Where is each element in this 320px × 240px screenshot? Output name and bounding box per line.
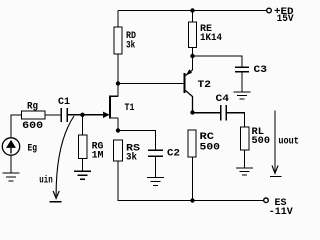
node emitter <box>190 54 194 58</box>
wire collector to C4 <box>193 112 221 114</box>
svg-text:1K14: 1K14 <box>200 33 222 44</box>
svg-text:15V: 15V <box>277 14 294 25</box>
svg-text:500: 500 <box>252 136 271 147</box>
wire emitter node to C3 <box>193 56 243 67</box>
resistor RD 3k <box>114 27 122 54</box>
capacitor C1 <box>58 97 70 122</box>
ground RL <box>236 168 253 175</box>
svg-text:uout: uout <box>278 136 299 147</box>
wire source to C2 <box>118 131 156 151</box>
ground C3 <box>234 92 251 99</box>
capacitor C2 <box>148 149 180 160</box>
resistor RE 1K14 <box>189 22 197 48</box>
wire RE bottom <box>192 48 194 57</box>
wire RD bottom <box>117 54 119 84</box>
resistor RC 500 <box>188 130 196 157</box>
source Eg <box>2 138 37 155</box>
svg-text:C2: C2 <box>167 149 180 160</box>
svg-text:C1: C1 <box>58 97 70 108</box>
node drain/base <box>116 81 120 85</box>
wire gate <box>68 114 105 116</box>
wire RG top <box>82 115 84 135</box>
terminal ES <box>264 198 269 203</box>
node collector <box>190 110 194 114</box>
ground RG <box>74 171 91 179</box>
resistor RS 3k <box>114 140 123 161</box>
wire RG bottom <box>82 159 84 172</box>
resistor Rg 600 <box>22 111 46 119</box>
capacitor C4 <box>216 94 230 121</box>
wire RC bottom <box>192 157 194 201</box>
wire RL bottom <box>244 150 246 168</box>
wire Eg to Rg <box>11 115 22 138</box>
wire C2 bottom <box>155 156 157 177</box>
ground C2 <box>147 178 164 186</box>
node gate/RG <box>80 113 84 117</box>
svg-text:T1: T1 <box>125 103 135 114</box>
wire RD top <box>117 11 119 28</box>
wire Eg bottom <box>10 155 12 173</box>
wire RS bottom <box>118 161 264 201</box>
wire Rg to C1 <box>45 114 61 116</box>
svg-text:C4: C4 <box>216 94 230 105</box>
uout arrow <box>270 111 299 177</box>
transistor T2 (PNP) <box>185 56 212 113</box>
svg-text:RC: RC <box>200 132 215 143</box>
node bottom rail <box>190 198 194 202</box>
svg-text:Eg: Eg <box>28 144 38 155</box>
svg-text:1M: 1M <box>92 150 104 161</box>
svg-text:uin: uin <box>39 175 52 187</box>
transistor T1 (JFET) <box>103 84 135 131</box>
ground Eg <box>3 173 20 181</box>
wire top rail <box>118 10 267 12</box>
svg-text:3k: 3k <box>126 152 137 164</box>
resistor RL 500 <box>241 127 250 150</box>
wire base to T2 <box>118 83 184 85</box>
node source/RS <box>116 128 120 132</box>
resistor RG 1M <box>79 135 88 159</box>
svg-text:3k: 3k <box>126 39 135 51</box>
svg-text:-11V: -11V <box>269 207 293 218</box>
svg-text:500: 500 <box>200 142 221 153</box>
wire RE top <box>192 11 194 23</box>
wire C3 bottom <box>241 72 243 92</box>
svg-text:C3: C3 <box>254 65 268 76</box>
terminal +ED <box>267 8 272 13</box>
wire C4 to RL <box>226 113 245 127</box>
uin arrow <box>39 116 74 202</box>
svg-text:T2: T2 <box>198 80 212 91</box>
capacitor C3 <box>235 65 267 76</box>
svg-text:Rg: Rg <box>27 101 38 112</box>
node top RE junction <box>190 8 194 12</box>
svg-text:600: 600 <box>22 121 43 132</box>
